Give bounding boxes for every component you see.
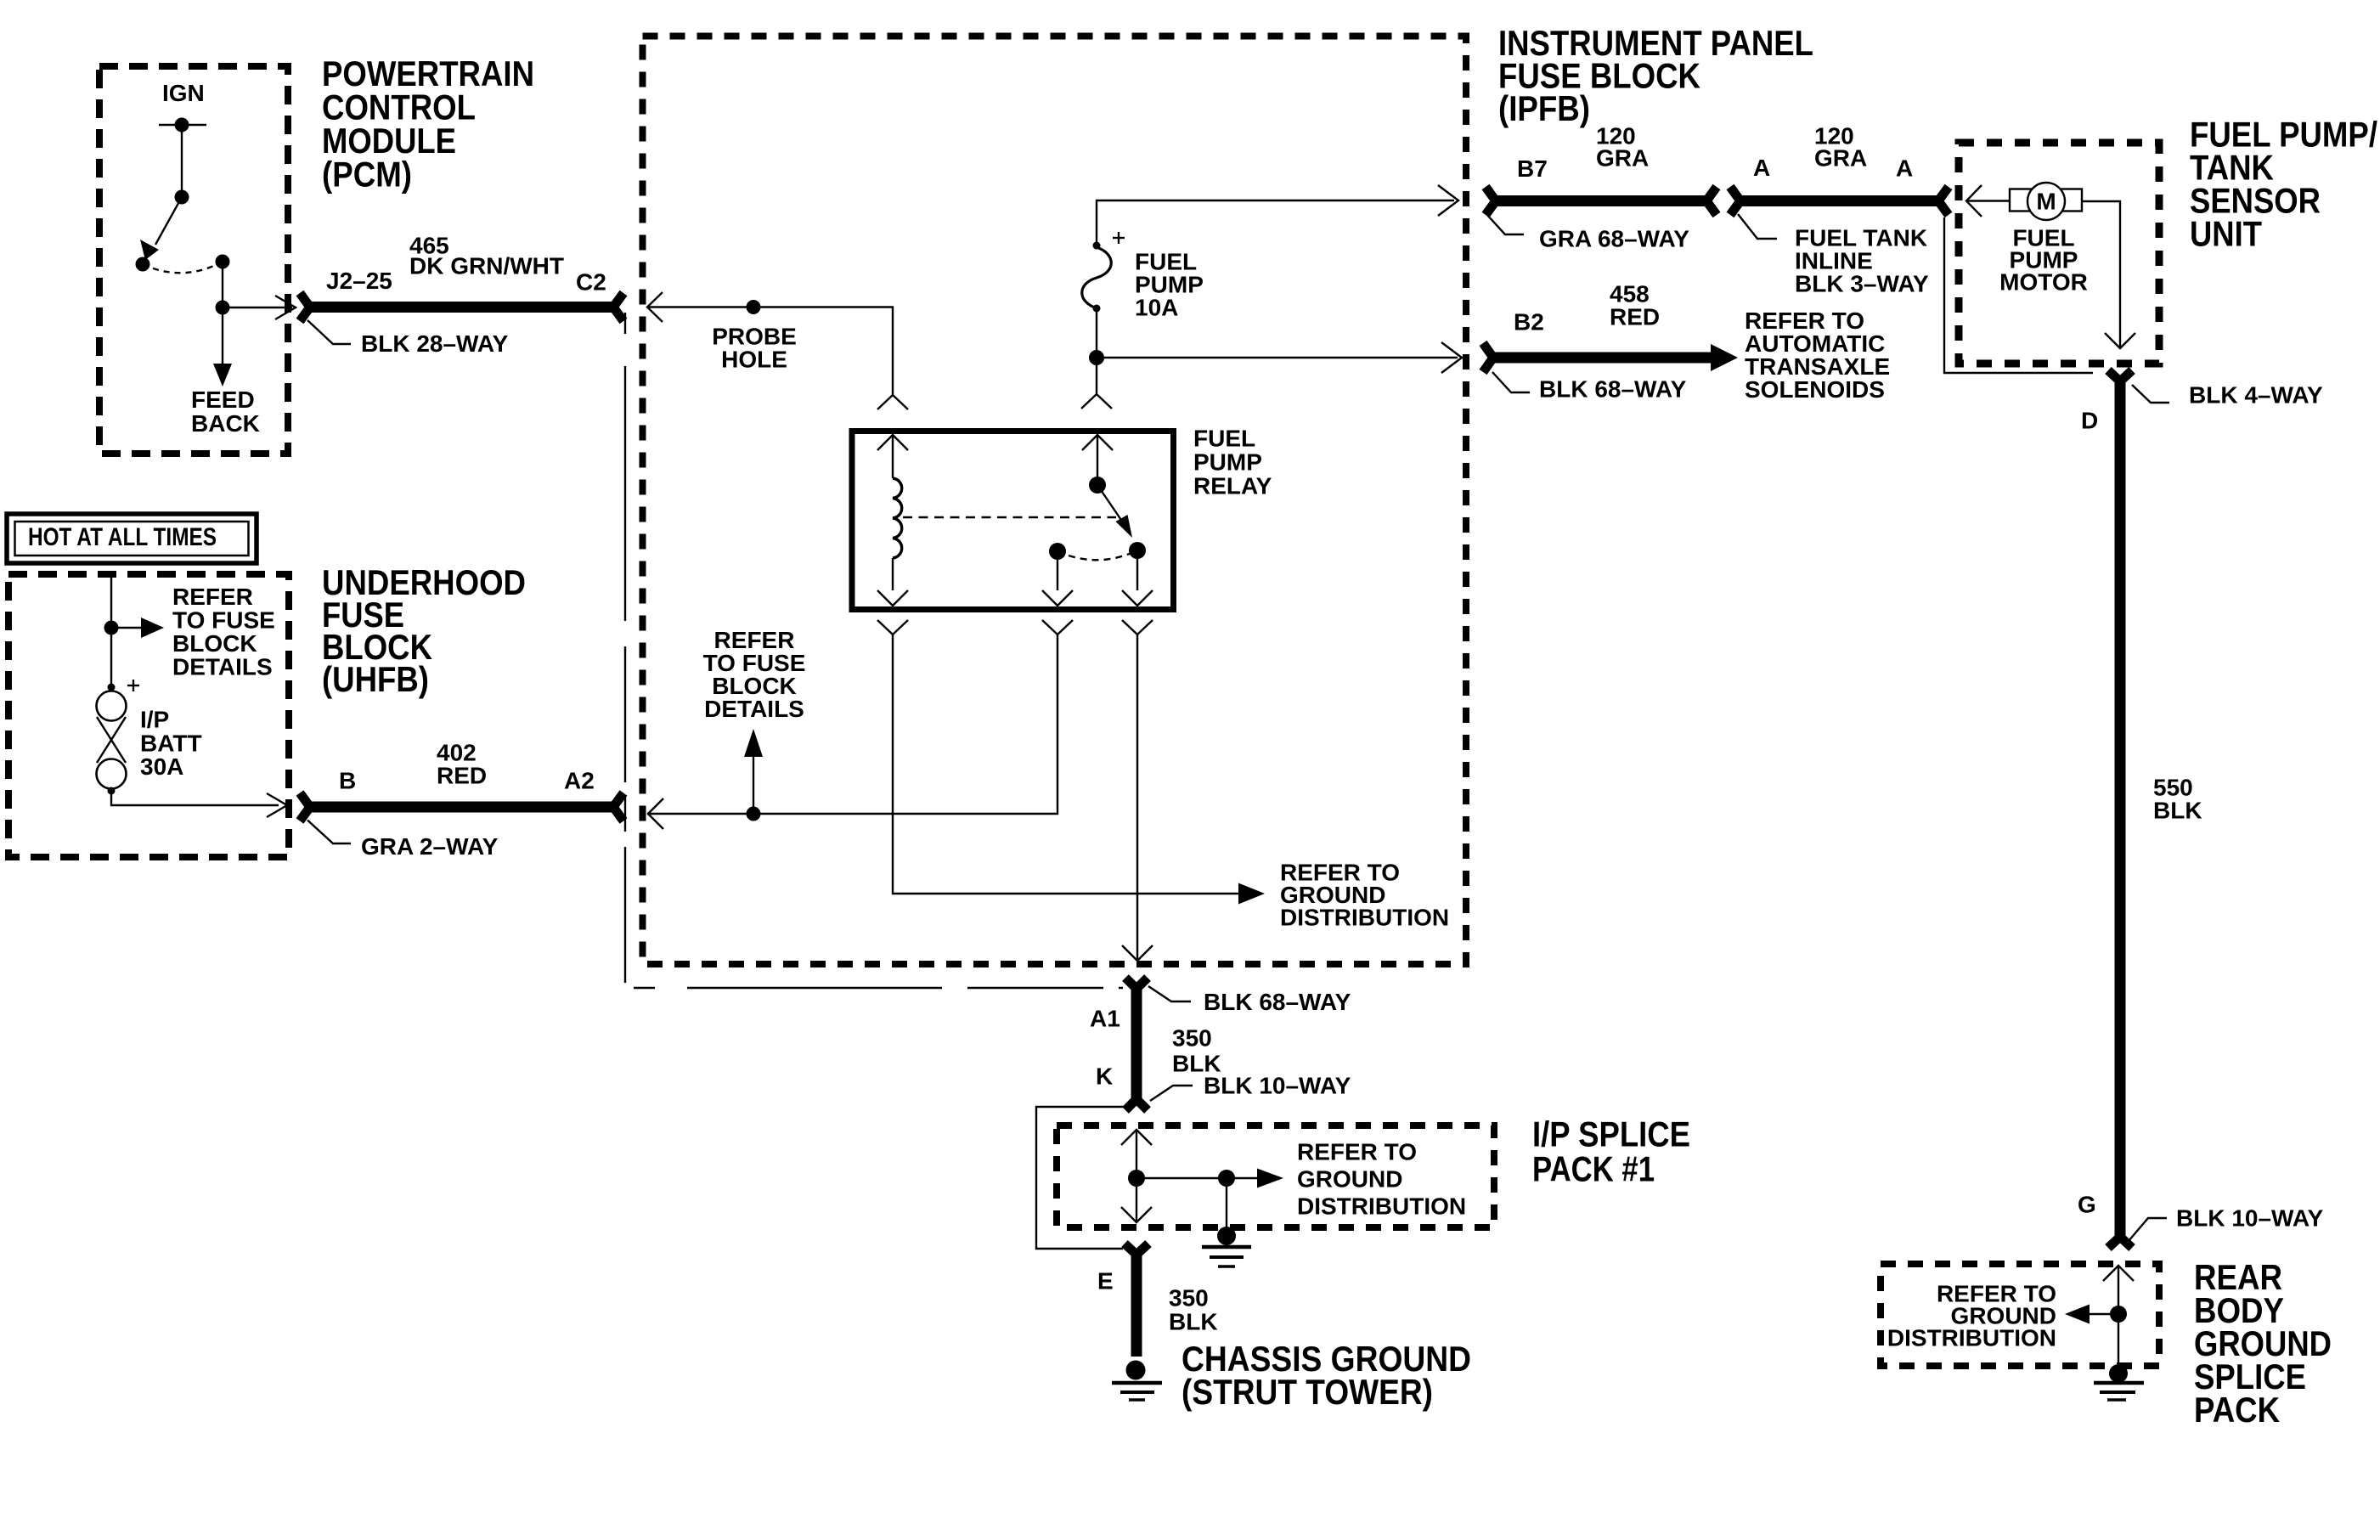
svg-text:BLK 3–WAY: BLK 3–WAY [1795, 271, 1929, 297]
label 550 BLK [2153, 775, 2202, 824]
svg-text:BLK 28–WAY: BLK 28–WAY [361, 330, 509, 357]
harness boundary long-dash line left [625, 313, 1123, 988]
svg-text:A: A [1753, 155, 1770, 181]
svg-text:FEED: FEED [191, 386, 255, 413]
svg-text:A: A [1896, 155, 1913, 182]
fuel pump motor dashed box [1959, 143, 2159, 364]
wire from fuse to B with open arrow [111, 791, 287, 817]
POWERTRAIN CONTROL MODULE (PCM) title [322, 54, 534, 195]
svg-text:REFER TO: REFER TO [1297, 1139, 1417, 1165]
INSTRUMENT PANEL FUSE BLOCK (IPFB) title [1498, 23, 1813, 128]
svg-text:350: 350 [1172, 1025, 1212, 1052]
wire 120 GRA thick bar B7 [1486, 187, 1717, 215]
REAR BODY GROUND SPLICE PACK title [2194, 1257, 2332, 1430]
svg-text:B7: B7 [1517, 155, 1548, 182]
connector crow foot above relay pin 30 [1081, 394, 1112, 409]
connector bar E 350 BLK [1125, 1244, 1148, 1357]
label 458 RED [1610, 281, 1660, 330]
label REFER TO GROUND DISTRIBUTION rear [1887, 1281, 2056, 1351]
svg-text:GRA: GRA [1596, 145, 1649, 172]
svg-text:BLK 4–WAY: BLK 4–WAY [2189, 382, 2323, 409]
svg-text:BLK 68–WAY: BLK 68–WAY [1539, 376, 1687, 403]
arrow to ground distribution right [1136, 1169, 1283, 1188]
node splice junction [1128, 1170, 1145, 1187]
chassis ground symbol [1112, 1361, 1162, 1401]
node junction on A2 line [747, 807, 761, 821]
svg-text:DK GRN/WHT: DK GRN/WHT [409, 253, 564, 279]
label 402 RED [437, 740, 487, 789]
wire 458 RED thick bar B2 [1483, 343, 1738, 372]
svg-text:RED: RED [437, 763, 487, 789]
svg-text:TO FUSE: TO FUSE [172, 607, 275, 634]
svg-text:GRA: GRA [1814, 145, 1867, 172]
wire from hot feed [110, 578, 112, 685]
svg-text:(UHFB): (UHFB) [322, 659, 429, 699]
svg-text:HOT AT ALL TIMES: HOT AT ALL TIMES [28, 523, 217, 551]
svg-text:GROUND: GROUND [1297, 1166, 1402, 1193]
wire to probe hole with open arrow [647, 292, 893, 395]
connector label BLK 10-WAY G [2129, 1205, 2324, 1242]
UNDERHOOD FUSE BLOCK (UHFB) title [322, 562, 526, 699]
ground at rear splice pack [2094, 1314, 2144, 1400]
fuse I/P BATT 30A [97, 680, 140, 795]
wire fuse to junction and to IPFB B2 feed [1097, 308, 1462, 394]
UHFB dashed box [8, 574, 289, 857]
wire relay 87 down to A1 [1122, 620, 1153, 961]
relay coil [893, 478, 902, 558]
svg-text:DISTRIBUTION: DISTRIBUTION [1887, 1325, 2056, 1351]
splice wire out bottom [1121, 1178, 1152, 1222]
wire relay 87a to A2 line [647, 620, 1073, 829]
fuse FUEL PUMP 10A [1082, 232, 1125, 313]
ignition switch in PCM [136, 118, 230, 315]
svg-text:HOLE: HOLE [721, 347, 787, 373]
svg-text:BLK 10–WAY: BLK 10–WAY [1204, 1073, 1351, 1099]
svg-text:PACK: PACK [2194, 1390, 2280, 1430]
svg-text:(STRUT TOWER): (STRUT TOWER) [1182, 1372, 1433, 1412]
svg-text:GRA 68–WAY: GRA 68–WAY [1539, 226, 1689, 252]
relay box FUEL PUMP RELAY [852, 432, 1174, 610]
relay actuation dashed link [903, 516, 1116, 518]
svg-text:(IPFB): (IPFB) [1498, 88, 1590, 128]
harness boundary line sensor unit [1944, 217, 2093, 373]
rear body ground splice pack dashed box [1881, 1264, 2159, 1366]
junction dot [104, 621, 119, 635]
svg-text:J2–25: J2–25 [326, 268, 392, 294]
motor M fuel pump motor [2010, 183, 2082, 220]
svg-text:DISTRIBUTION: DISTRIBUTION [1280, 905, 1449, 931]
wire motor to inline connector with open arrow [1966, 185, 2010, 217]
label 465 DK GRN/WHT [409, 233, 564, 279]
HOT AT ALL TIMES box [7, 514, 257, 563]
connector crow foot above relay pin 85 [877, 395, 908, 409]
svg-text:BLK 68–WAY: BLK 68–WAY [1204, 989, 1351, 1015]
svg-text:K: K [1096, 1063, 1113, 1090]
wire 465 DK GRN/WHT thick bar C2 [300, 293, 623, 321]
svg-text:C2: C2 [576, 269, 606, 296]
label FUEL PUMP RELAY [1193, 426, 1272, 499]
svg-text:M: M [2036, 189, 2056, 215]
svg-text:10A: 10A [1135, 295, 1178, 321]
label PROBE HOLE [712, 324, 797, 373]
node FEED BACK label [191, 386, 260, 437]
PCM dashed box [99, 66, 288, 454]
I/P splice pack dashed box [1057, 1125, 1494, 1227]
svg-text:PACK #1: PACK #1 [1532, 1149, 1655, 1189]
label 350 BLK lower [1169, 1285, 1218, 1335]
label I/P BATT 30A [140, 707, 202, 781]
svg-text:UNIT: UNIT [2190, 214, 2262, 254]
svg-text:DETAILS: DETAILS [172, 654, 273, 680]
node rear splice junction [2110, 1306, 2127, 1323]
svg-text:30A: 30A [140, 753, 183, 780]
svg-text:G: G [2078, 1192, 2096, 1218]
svg-text:MOTOR: MOTOR [1999, 269, 2088, 296]
wire 550 BLK thick bar D to G [2108, 370, 2132, 1248]
label REFER TO FUSE BLOCK DETAILS center [703, 627, 806, 722]
svg-text:DETAILS: DETAILS [704, 696, 804, 722]
label REFER TO AUTOMATIC TRANSAXLE SOLENOIDS [1745, 307, 1890, 403]
svg-text:(PCM): (PCM) [322, 155, 412, 195]
svg-text:A2: A2 [564, 768, 595, 794]
I/P SPLICE PACK #1 title [1532, 1114, 1690, 1189]
wire motor down to D with open arrow [2082, 201, 2135, 348]
harness bracket at I/P splice pack [1036, 1107, 1123, 1249]
svg-text:350: 350 [1169, 1285, 1209, 1312]
node probe hole junction [747, 300, 761, 314]
node junction below fuse [1089, 350, 1104, 365]
connector label FUEL TANK INLINE BLK 3-WAY [1738, 214, 1929, 297]
svg-text:BATT: BATT [140, 731, 202, 757]
CHASSIS GROUND (STRUT TOWER) title [1182, 1339, 1471, 1412]
label REFER TO GROUND DISTRIBUTION center [1280, 860, 1449, 931]
splice wire in [1121, 1130, 1152, 1178]
svg-text:SOLENOIDS: SOLENOIDS [1745, 376, 1885, 403]
PCM feedback arrow [213, 307, 232, 386]
label REFER TO FUSE BLOCK DETAILS [172, 584, 275, 680]
relay contact dashed arc [1057, 550, 1137, 560]
connector label BLK 28-WAY [307, 320, 509, 357]
connector label BLK 10-WAY upper [1150, 1073, 1351, 1102]
label FUEL PUMP 10A [1135, 249, 1204, 321]
relay common pin 30 [1082, 435, 1113, 494]
connector label BLK 68-WAY lower [1148, 986, 1351, 1015]
svg-text:I/P SPLICE: I/P SPLICE [1532, 1114, 1690, 1154]
svg-text:RED: RED [1610, 304, 1660, 330]
wire relay 86 to ground distribution [877, 620, 1265, 905]
connector label BLK 68-WAY B2 [1492, 372, 1687, 403]
svg-text:REFER: REFER [172, 584, 253, 610]
relay contact 87 [1122, 542, 1153, 606]
label REFER TO GROUND DISTRIBUTION splice [1297, 1139, 1466, 1220]
wire 402 RED thick bar B to A2 [300, 793, 623, 821]
label 120 GRA right [1814, 123, 1867, 172]
relay contact 87a [1042, 543, 1073, 606]
splice wire in rear [2103, 1266, 2134, 1314]
wire to IPFB B7 feed [1097, 185, 1458, 245]
connector label GRA 68-WAY [1486, 214, 1689, 252]
svg-text:E: E [1097, 1268, 1114, 1295]
connector label GRA 2-WAY [307, 821, 499, 860]
svg-text:IGN: IGN [162, 80, 205, 106]
label 120 GRA left [1596, 123, 1649, 172]
svg-text:BLOCK: BLOCK [172, 630, 257, 657]
arrow to ground distribution left [2065, 1305, 2118, 1324]
relay coil pin 85 [877, 435, 908, 478]
svg-text:BACK: BACK [191, 410, 260, 437]
svg-text:BLK 10–WAY: BLK 10–WAY [2176, 1205, 2324, 1232]
svg-text:B: B [339, 768, 356, 794]
arrow to fuse block details [111, 618, 164, 638]
svg-text:BLK: BLK [1169, 1309, 1218, 1335]
instrument panel fuse block dashed box [643, 37, 1467, 965]
relay switch arm [1097, 485, 1132, 538]
ground at splice pack [1202, 1178, 1251, 1266]
svg-text:PUMP: PUMP [1193, 449, 1262, 476]
connector bar A1 K 350 BLK [1125, 978, 1148, 1110]
svg-text:GRA 2–WAY: GRA 2–WAY [361, 833, 499, 860]
svg-text:DISTRIBUTION: DISTRIBUTION [1297, 1193, 1466, 1220]
wire PCM J2-25 output with open arrow [223, 296, 296, 319]
connector label BLK 4-WAY [2132, 382, 2323, 409]
arrow up to fuse block details [744, 729, 763, 814]
label 350 BLK upper [1172, 1025, 1221, 1077]
svg-text:BLK: BLK [2153, 798, 2202, 824]
svg-text:B2: B2 [1514, 309, 1544, 336]
svg-text:RELAY: RELAY [1193, 473, 1272, 499]
svg-text:A1: A1 [1090, 1006, 1120, 1032]
svg-text:D: D [2081, 408, 2098, 434]
svg-text:FUEL: FUEL [1193, 426, 1255, 452]
FUEL PUMP/TANK SENSOR UNIT title [2190, 115, 2377, 254]
svg-text:I/P: I/P [140, 707, 169, 733]
label FUEL PUMP MOTOR [1999, 225, 2088, 296]
relay coil pin 86 [877, 558, 908, 606]
wire 120 GRA fuel tank inline bar [1730, 187, 1949, 215]
